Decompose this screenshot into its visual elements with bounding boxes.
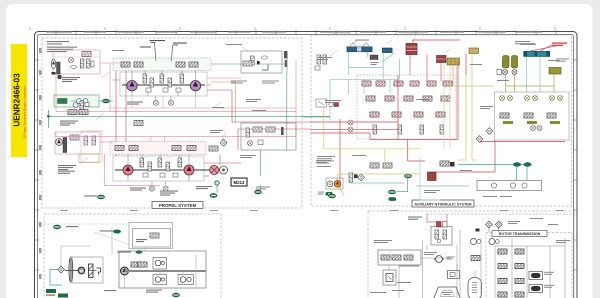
yellow binding strip xyxy=(11,44,27,157)
pump drive system boundary (bottom left) xyxy=(44,214,221,298)
maroon block small xyxy=(437,56,447,63)
return manifold valve row xyxy=(68,110,88,115)
upper pump port stubs xyxy=(113,71,211,109)
cyan cylinder lines xyxy=(330,52,399,120)
rotor diamonds xyxy=(486,221,503,232)
water spray cylinder left xyxy=(347,40,372,52)
teal line from M213 xyxy=(259,150,261,176)
svg-text:PROPEL SYSTEM: PROPEL SYSTEM xyxy=(159,203,197,208)
return manifold filter circle xyxy=(73,103,78,108)
brake valve glyphs xyxy=(209,146,218,151)
maroon cartridge right xyxy=(428,172,437,181)
teal solenoid bar xyxy=(515,41,569,62)
aux pump captions xyxy=(318,188,344,194)
rotor left captions xyxy=(370,240,404,293)
return tank symbol xyxy=(102,99,109,103)
pc propel motor loop trapezoid xyxy=(434,287,461,298)
charge filter bar upper xyxy=(52,62,61,75)
mid separation micro labels xyxy=(60,210,564,211)
rotor transmission boundary xyxy=(486,233,572,298)
right bank port circles xyxy=(531,126,543,131)
case drain tank lower-left xyxy=(84,195,105,199)
green return line lower xyxy=(217,123,287,193)
rotor pump header red valve xyxy=(431,222,452,246)
lower note text xyxy=(58,165,76,174)
upper control valves xyxy=(121,62,198,67)
fan tank xyxy=(210,194,217,198)
svg-text:ROTOR TRANSMISSION: ROTOR TRANSMISSION xyxy=(499,232,541,236)
fan motor M xyxy=(78,267,85,274)
aux manifold valves row3 xyxy=(370,112,445,117)
pink charge bus upper xyxy=(56,60,296,111)
upper group caption xyxy=(127,102,143,105)
rotor relief valves column1 xyxy=(498,249,524,297)
aux mid text block xyxy=(317,156,335,167)
charge check glyphs upper xyxy=(70,59,94,69)
gearbox dashed feed lines xyxy=(61,227,196,288)
brake diamond xyxy=(220,139,227,146)
main return trunk line xyxy=(48,110,330,128)
aux leader lines top xyxy=(330,37,450,57)
flush valve block right xyxy=(284,51,287,67)
right valve bank box xyxy=(495,92,570,140)
upper pilot captions xyxy=(140,40,187,48)
charge case drain port xyxy=(58,75,62,79)
travel pump 2 (rear) xyxy=(190,81,200,91)
drawing frame inner border xyxy=(38,35,574,298)
charge pump circle upper xyxy=(51,59,55,69)
bottom manifold bar xyxy=(477,181,542,191)
header note text block xyxy=(47,41,77,52)
auxiliary hydraulic system label xyxy=(412,200,474,207)
aux pilot filter box left xyxy=(316,99,327,107)
aux manifold valves row1 xyxy=(362,81,452,86)
spray selector block xyxy=(370,55,379,65)
pink feed to solenoids xyxy=(530,43,567,52)
return trunk node xyxy=(47,115,49,117)
cyan riser lines xyxy=(527,57,541,92)
aux manifold box xyxy=(357,75,456,139)
svg-text:UENR2466-03: UENR2466-03 xyxy=(13,73,22,127)
torque hub coupling xyxy=(434,256,455,263)
olive valve block right xyxy=(549,68,561,75)
lower captions xyxy=(130,186,212,196)
axle gearbox box xyxy=(119,251,206,288)
red aux bank line xyxy=(436,140,565,172)
aux solenoid valve cluster right xyxy=(440,161,455,167)
rotor tee fitting xyxy=(476,229,480,232)
accumulator pair right xyxy=(503,56,518,69)
aux pump unit box xyxy=(326,178,343,189)
tank vent label xyxy=(53,225,78,229)
khaki pilot drop xyxy=(453,65,494,86)
lower pump servo glyphs xyxy=(140,158,182,177)
charge pump box upper xyxy=(53,50,100,74)
rotor system boundary (bottom right) xyxy=(368,211,574,298)
travel motor 2 xyxy=(184,165,194,175)
gearbox pump xyxy=(121,267,129,275)
charge filter bar lower xyxy=(63,138,67,153)
charge text block upper xyxy=(62,77,80,82)
rotor header caption xyxy=(408,217,422,220)
cooler fan blades xyxy=(65,257,75,284)
svg-text:M213: M213 xyxy=(234,180,246,185)
line relief cartridge A xyxy=(529,272,554,280)
travel pump 1 (front) xyxy=(127,81,137,91)
upper pump box xyxy=(120,72,207,96)
right bank pilot glyphs xyxy=(500,96,563,101)
aux check valve cluster xyxy=(349,173,358,182)
aux pump green capsule xyxy=(326,192,333,196)
svg-text:M: M xyxy=(79,268,83,273)
accumulator isolation valves xyxy=(497,70,517,75)
aux second green capsule xyxy=(389,197,397,201)
aux small valve upper mid xyxy=(329,102,339,106)
rotor small valve mid2 xyxy=(471,256,480,261)
tan pilot verticals xyxy=(444,63,457,149)
aux pump small circle xyxy=(327,181,333,187)
propel system label xyxy=(152,202,203,209)
rotor net lines xyxy=(389,214,575,298)
motor code box M213 xyxy=(231,178,247,186)
charge pump circle lower xyxy=(56,139,63,146)
propel leader lines xyxy=(80,45,248,164)
aux tanks xyxy=(328,174,411,198)
gearbox valve circles A xyxy=(153,258,167,270)
right bank spool valves xyxy=(500,113,556,118)
aux scattered captions xyxy=(316,44,560,197)
frame border division ticks xyxy=(34,30,578,270)
upper pump servo glyphs xyxy=(143,74,184,92)
upper valve row box xyxy=(113,58,211,71)
green return line upper xyxy=(99,51,287,123)
return text block xyxy=(60,121,78,126)
pink charge bus lower xyxy=(56,111,296,185)
propel caption labels right xyxy=(112,44,279,190)
teal port ovals xyxy=(513,162,532,166)
accumulator rounded xyxy=(468,278,482,298)
rotor gauges xyxy=(471,239,500,245)
upper shuttle circles xyxy=(153,100,173,105)
lower pump port stubs xyxy=(128,155,189,187)
torque hub caption mid xyxy=(424,252,437,255)
pump drive inner partition xyxy=(44,223,129,225)
aux left port glyphs xyxy=(315,55,327,70)
charge pump box lower xyxy=(55,131,102,162)
maroon valve block top xyxy=(406,44,417,55)
aux green return lines xyxy=(302,117,469,192)
tank below M213 xyxy=(254,190,261,194)
revision column marks xyxy=(39,48,42,279)
gearbox tank xyxy=(172,293,179,297)
suction strainer caption xyxy=(100,230,121,234)
aux filter diamond xyxy=(358,174,365,181)
torque hub box outer xyxy=(129,223,173,249)
aux gear pump circles top xyxy=(348,120,353,132)
rotor transmission label xyxy=(492,231,547,237)
gearbox motor box xyxy=(178,275,194,285)
torque hub box inner xyxy=(133,229,171,248)
lower valve row box xyxy=(110,142,206,155)
lower control valves xyxy=(115,146,196,151)
aux manifold cartridges xyxy=(373,125,444,134)
right bank springs xyxy=(503,121,560,124)
lower left tank blocks xyxy=(46,289,68,298)
charge relief valves lower xyxy=(70,135,96,145)
trunk branch valve xyxy=(134,121,143,126)
hydraulic tank diamond xyxy=(58,266,65,273)
lower shuttle circles xyxy=(150,186,169,191)
olive riser lines xyxy=(506,74,555,92)
upper pilot leader lines xyxy=(155,43,173,61)
aux header micro text xyxy=(320,32,542,35)
red crossover lines lower xyxy=(116,122,311,176)
rotor small box mid xyxy=(448,271,460,279)
aux red supply lines xyxy=(311,40,466,188)
red crossover lines upper xyxy=(116,71,232,142)
oil cooler caption xyxy=(508,218,558,225)
aux manifold valves row2 xyxy=(366,96,450,101)
lower pump box xyxy=(113,156,228,181)
teal mid lines xyxy=(458,164,530,180)
tan block far left xyxy=(469,48,479,54)
auxiliary hydraulic system boundary xyxy=(311,35,572,206)
khaki block xyxy=(447,58,460,65)
return manifold green box xyxy=(54,95,99,107)
frame tick marks top xyxy=(30,27,555,30)
red feed lines rotor xyxy=(427,214,447,222)
svg-text:AUXILIARY HYDRAULIC SYSTEM: AUXILIARY HYDRAULIC SYSTEM xyxy=(414,202,471,206)
brake release circle xyxy=(210,165,219,174)
upper right valve box xyxy=(241,51,282,73)
charge relief valves upper xyxy=(69,52,92,63)
return manifold valve cluster xyxy=(80,101,89,110)
fan motor circle xyxy=(215,181,219,185)
tank return line teal xyxy=(50,270,62,286)
fan motor box xyxy=(72,257,103,283)
aux red drop lines xyxy=(410,55,441,82)
water spray cylinder right xyxy=(382,48,392,53)
svg-text:36 Page, Simulated Models + Hy: 36 Page, Simulated Models + Hydraulic xyxy=(23,85,27,138)
aux diamonds xyxy=(476,128,493,143)
rotor sampler box xyxy=(383,270,411,285)
line relief cartridge B xyxy=(529,285,554,293)
aux relief valve group xyxy=(370,163,392,168)
aux piston pump (orange) xyxy=(334,181,341,188)
gearbox filter block xyxy=(131,262,147,267)
propel system boundary xyxy=(42,38,302,208)
gearbox valve circles B xyxy=(153,275,167,285)
travel motor 1 xyxy=(123,165,133,175)
aux yellow pilot lines xyxy=(324,54,477,181)
parking brake circle xyxy=(220,166,228,174)
gearbox captions xyxy=(104,290,162,293)
breather caption xyxy=(117,250,142,254)
orange pilot line right xyxy=(211,82,236,123)
rotor top right caption xyxy=(556,240,570,243)
propel header micro text xyxy=(46,32,286,35)
gearbox shaft xyxy=(125,270,207,272)
lower right valve box xyxy=(241,123,296,150)
aux pale cyan drop xyxy=(420,157,440,200)
rotor inner left rail xyxy=(460,230,481,298)
rotor drive manifold xyxy=(378,250,421,265)
tan pump sub-box lower xyxy=(79,154,99,162)
